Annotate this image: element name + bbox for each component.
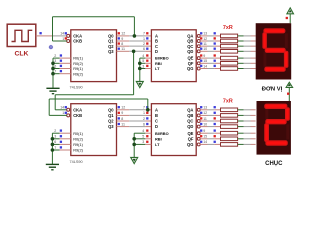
svg-text:13: 13 xyxy=(203,106,207,110)
svg-text:11: 11 xyxy=(121,122,125,126)
resistor R5 xyxy=(221,56,238,60)
state square decoder input xyxy=(146,123,148,125)
junction xyxy=(132,137,136,141)
clock output pin xyxy=(36,35,42,37)
CKB inversion bubble xyxy=(67,40,70,43)
wire Q0 to CKB feedback xyxy=(49,99,148,115)
svg-text:CKB: CKB xyxy=(73,113,82,118)
state square resistor pin xyxy=(214,123,216,125)
wire resistor to display xyxy=(238,132,244,134)
resistor R1 xyxy=(221,34,238,38)
svg-text:11: 11 xyxy=(121,47,125,51)
BI/RBI/LT pin stub 5 xyxy=(145,138,151,140)
7-segment display tens xyxy=(257,101,291,155)
svg-text:QA: QA xyxy=(187,107,193,112)
svg-text:RBI: RBI xyxy=(155,136,162,141)
svg-text:8: 8 xyxy=(121,42,123,46)
state square Q2 xyxy=(118,42,120,44)
svg-text:1: 1 xyxy=(62,37,64,41)
state square decoder output xyxy=(200,106,202,108)
wire QE to resistor xyxy=(200,132,207,134)
state square xyxy=(146,60,148,62)
state square Q1 xyxy=(118,37,120,39)
output bubble QF xyxy=(197,137,200,140)
svg-text:1: 1 xyxy=(143,111,145,115)
state square resistor pin xyxy=(214,135,216,137)
resistor R2 xyxy=(221,114,238,118)
state square R pin xyxy=(60,129,62,131)
IC 74LS47 decoder U2 xyxy=(151,30,196,82)
IC 74LS90 counter U1 xyxy=(71,104,117,156)
wire resistor to display xyxy=(238,57,244,59)
state square CKB xyxy=(65,112,67,114)
output bubble QE xyxy=(197,132,200,135)
svg-text:Q0: Q0 xyxy=(108,107,114,112)
state square decoder output xyxy=(200,129,202,131)
svg-text:5: 5 xyxy=(142,59,144,63)
7-segment display units xyxy=(256,23,292,79)
wire Q0 to decoder input xyxy=(117,109,130,111)
svg-text:5: 5 xyxy=(142,135,144,139)
output bubble QB xyxy=(197,40,200,43)
svg-text:15: 15 xyxy=(203,135,207,139)
state square decoder output xyxy=(200,112,202,114)
BI/RBI/LT pin stub 5 xyxy=(145,62,151,64)
state square resistor pin xyxy=(214,141,216,143)
svg-text:7xR: 7xR xyxy=(223,25,233,31)
output bubble QC xyxy=(197,120,200,123)
resistor R3 xyxy=(221,44,238,48)
wire resistor to display xyxy=(238,114,244,116)
junction xyxy=(51,143,55,147)
state square CKA xyxy=(65,32,67,34)
svg-text:9: 9 xyxy=(121,37,123,41)
state square decoder input xyxy=(146,37,148,39)
state square resistor pin xyxy=(214,60,216,62)
state square R pin xyxy=(60,60,62,62)
svg-text:7xR: 7xR xyxy=(223,99,233,105)
svg-text:11: 11 xyxy=(203,42,207,46)
svg-text:9: 9 xyxy=(121,111,123,115)
wire Q2 to decoder input xyxy=(117,120,130,122)
state square resistor pin xyxy=(214,42,216,44)
state square CKA xyxy=(65,106,67,108)
state square resistor pin xyxy=(214,32,216,34)
state square xyxy=(146,141,148,143)
state square R pin xyxy=(60,70,62,72)
BI/RBI/LT pin stub 4 xyxy=(145,57,151,59)
state square decoder output xyxy=(200,48,202,50)
R pin stub 2 xyxy=(60,57,71,59)
svg-text:2: 2 xyxy=(54,129,56,133)
BI/RBI/LT pin stub 3 xyxy=(145,143,151,145)
state square Q3 xyxy=(118,48,120,50)
ground xyxy=(46,88,59,93)
svg-text:15: 15 xyxy=(203,59,207,63)
state square xyxy=(146,129,148,131)
resistor R4 xyxy=(221,50,238,54)
state square decoder output xyxy=(200,65,202,67)
power terminal top display xyxy=(287,8,294,23)
output bubble QD xyxy=(197,125,200,128)
state square decoder input xyxy=(146,117,148,119)
svg-text:CLK: CLK xyxy=(15,51,29,58)
junction Q3 branch xyxy=(132,50,136,54)
svg-text:Q1: Q1 xyxy=(108,113,114,118)
wire QE to resistor xyxy=(200,57,207,59)
wire resistor to display xyxy=(238,120,244,122)
junction xyxy=(138,67,142,71)
state square decoder input xyxy=(146,42,148,44)
svg-text:12: 12 xyxy=(121,32,125,36)
wire Q3 to bottom CKA cascade xyxy=(55,51,133,110)
junction xyxy=(132,143,136,147)
state square decoder output xyxy=(200,42,202,44)
svg-text:14: 14 xyxy=(60,32,64,36)
wire QA to resistor xyxy=(200,35,207,37)
svg-text:10: 10 xyxy=(203,122,207,126)
CKA inversion bubble xyxy=(67,108,70,111)
output bubble QG xyxy=(197,67,200,70)
state square CKB xyxy=(65,37,67,39)
wire QF to resistor xyxy=(200,62,207,64)
svg-text:12: 12 xyxy=(203,111,207,115)
svg-text:C: C xyxy=(155,119,158,124)
state square decoder output xyxy=(200,32,202,34)
state square R pin xyxy=(60,135,62,137)
output bubble QB xyxy=(197,114,200,117)
svg-text:QE: QE xyxy=(187,131,193,136)
output bubble QG xyxy=(197,143,200,146)
ground xyxy=(46,164,59,169)
state square xyxy=(146,135,148,137)
R pin stub 6 xyxy=(60,68,71,70)
svg-text:7: 7 xyxy=(54,146,56,150)
svg-text:74LS90: 74LS90 xyxy=(70,86,83,90)
state square R pin xyxy=(60,65,62,67)
svg-text:QC: QC xyxy=(187,119,193,124)
svg-text:7: 7 xyxy=(143,106,145,110)
wire QC to resistor xyxy=(200,120,207,122)
svg-text:QD: QD xyxy=(187,49,193,54)
wire QD to resistor xyxy=(200,50,207,52)
state square decoder input xyxy=(146,106,148,108)
output bubble QD xyxy=(197,50,200,53)
resistor R4 xyxy=(221,125,238,129)
svg-text:R0(2): R0(2) xyxy=(73,136,83,141)
resistor R7 xyxy=(221,67,238,71)
state square resistor pin xyxy=(214,129,216,131)
svg-text:2: 2 xyxy=(143,117,145,121)
state square xyxy=(146,65,148,67)
output bubble QF xyxy=(197,62,200,65)
svg-text:LT: LT xyxy=(155,66,160,71)
wire QB to resistor xyxy=(200,40,207,42)
CKA inversion bubble xyxy=(67,34,70,37)
wire resistor to display xyxy=(238,40,244,42)
wire resistor to display xyxy=(238,50,244,52)
wire resistor to display xyxy=(238,68,244,70)
junction xyxy=(51,148,55,152)
state square decoder output xyxy=(200,117,202,119)
wire Q0 to CKB feedback xyxy=(53,17,135,41)
svg-text:CHỤC: CHỤC xyxy=(265,161,283,167)
wire resistor to display xyxy=(238,143,244,145)
state square decoder output xyxy=(200,54,202,56)
state square R pin xyxy=(60,141,62,143)
junction xyxy=(138,62,142,66)
wire resistor to display xyxy=(238,35,244,37)
BI/RBI/LT pin stub 3 xyxy=(145,68,151,70)
svg-text:1: 1 xyxy=(143,37,145,41)
svg-text:BI/RBO: BI/RBO xyxy=(155,131,169,136)
svg-text:6: 6 xyxy=(143,47,145,51)
clock generator CLK xyxy=(7,24,36,46)
R pin stub 3 xyxy=(60,138,71,140)
R pin stub 7 xyxy=(60,149,71,151)
wire QG to resistor xyxy=(200,143,207,145)
origin marker xyxy=(49,45,53,49)
state square decoder input xyxy=(146,112,148,114)
svg-text:3: 3 xyxy=(54,135,56,139)
state square resistor pin xyxy=(214,106,216,108)
output bubble QA xyxy=(197,34,200,37)
state square resistor pin xyxy=(214,65,216,67)
svg-text:R9(1): R9(1) xyxy=(73,142,83,147)
output bubble QA xyxy=(197,108,200,111)
state square decoder output xyxy=(200,37,202,39)
junction xyxy=(51,72,55,76)
svg-text:Q3: Q3 xyxy=(108,124,114,129)
svg-text:Q2: Q2 xyxy=(108,119,114,124)
wire R pins bus xyxy=(52,58,54,88)
R pin stub 3 xyxy=(60,62,71,64)
wire Q1 to decoder input xyxy=(117,114,130,116)
svg-text:6: 6 xyxy=(54,140,56,144)
svg-text:A: A xyxy=(155,107,158,112)
wire QB to resistor xyxy=(200,114,207,116)
wire LT net vertical xyxy=(133,133,135,157)
wire QA to resistor xyxy=(200,109,207,111)
svg-text:Q3: Q3 xyxy=(108,49,114,54)
state square resistor pin xyxy=(214,37,216,39)
svg-text:QD: QD xyxy=(187,124,193,129)
svg-text:9: 9 xyxy=(203,54,205,58)
svg-text:4: 4 xyxy=(142,129,144,133)
junction Q0 branch xyxy=(146,108,150,112)
svg-text:10: 10 xyxy=(203,47,207,51)
svg-text:14: 14 xyxy=(60,106,64,110)
svg-text:2: 2 xyxy=(143,42,145,46)
svg-text:11: 11 xyxy=(203,117,207,121)
svg-text:7: 7 xyxy=(143,32,145,36)
state square resistor pin xyxy=(214,117,216,119)
svg-text:9: 9 xyxy=(203,129,205,133)
svg-text:D: D xyxy=(155,124,158,129)
state square Q0 xyxy=(118,32,120,34)
svg-text:QB: QB xyxy=(187,113,193,118)
state square decoder input xyxy=(146,32,148,34)
wire Q3 to decoder input xyxy=(117,50,130,52)
state square resistor pin xyxy=(214,112,216,114)
state square resistor pin xyxy=(214,54,216,56)
junction Q0 branch xyxy=(133,34,137,38)
state square Q0 xyxy=(118,106,120,108)
power terminal bottom display xyxy=(286,82,293,101)
svg-text:R0(1): R0(1) xyxy=(73,131,83,136)
state square decoder output xyxy=(200,135,202,137)
wire QF to resistor xyxy=(200,138,207,140)
wire QD to resistor xyxy=(200,126,207,128)
resistor R2 xyxy=(221,39,238,43)
svg-text:74LS90: 74LS90 xyxy=(70,160,83,164)
junction xyxy=(51,62,55,66)
IC 74LS90 counter U1 xyxy=(71,30,117,82)
resistor R6 xyxy=(221,62,238,66)
R pin stub 2 xyxy=(60,132,71,134)
wire Q1 to decoder input xyxy=(117,40,130,42)
state square CLK output xyxy=(39,32,41,34)
state square decoder input xyxy=(146,48,148,50)
state square display anode xyxy=(286,17,288,19)
svg-text:14: 14 xyxy=(203,64,207,68)
svg-text:QG: QG xyxy=(187,66,193,71)
wire resistor to display xyxy=(238,126,244,128)
state square Q3 xyxy=(118,123,120,125)
power terminal arrow down xyxy=(136,81,143,87)
BI/RBI/LT pin stub 4 xyxy=(145,132,151,134)
wire R pins bus xyxy=(51,133,53,164)
wire resistor to display xyxy=(238,62,244,64)
wire Q3 to decoder input xyxy=(117,126,130,128)
svg-text:4: 4 xyxy=(142,54,144,58)
state square resistor pin xyxy=(214,48,216,50)
state square display anode xyxy=(287,93,289,95)
wire LT net vertical xyxy=(139,58,141,81)
svg-text:13: 13 xyxy=(203,32,207,36)
svg-text:QG: QG xyxy=(187,142,193,147)
state square decoder output xyxy=(200,123,202,125)
resistor R3 xyxy=(221,119,238,123)
wire resistor to display xyxy=(238,109,244,111)
junction xyxy=(51,67,55,71)
wire CLK to CKA xyxy=(42,35,53,37)
R pin stub 6 xyxy=(60,143,71,145)
wire QC to resistor xyxy=(200,45,207,47)
output bubble QC xyxy=(197,45,200,48)
svg-text:ĐƠN VỊ: ĐƠN VỊ xyxy=(262,86,283,92)
state square Q1 xyxy=(118,112,120,114)
svg-text:12: 12 xyxy=(203,37,207,41)
resistor R5 xyxy=(221,131,238,135)
resistor R1 xyxy=(221,108,238,112)
svg-text:3: 3 xyxy=(142,64,144,68)
state square R pin xyxy=(60,54,62,56)
wire resistor to display xyxy=(238,45,244,47)
power terminal arrow down xyxy=(131,157,138,163)
svg-text:B: B xyxy=(155,113,158,118)
state square Q2 xyxy=(118,117,120,119)
svg-text:R9(2): R9(2) xyxy=(73,148,83,153)
state square R pin xyxy=(60,146,62,148)
svg-text:14: 14 xyxy=(203,140,207,144)
resistor R6 xyxy=(221,137,238,141)
svg-text:CKB: CKB xyxy=(73,39,82,44)
output bubble QE xyxy=(197,57,200,60)
state square xyxy=(146,54,148,56)
wire resistor to display xyxy=(238,138,244,140)
wire Q0 to decoder input xyxy=(117,35,130,37)
svg-text:LT: LT xyxy=(155,142,160,147)
svg-text:1: 1 xyxy=(62,111,64,115)
state square decoder output xyxy=(200,141,202,143)
svg-text:12: 12 xyxy=(121,106,125,110)
resistor R7 xyxy=(221,143,238,147)
state square decoder output xyxy=(200,60,202,62)
junction xyxy=(51,137,55,141)
CKB inversion bubble xyxy=(67,114,70,117)
svg-text:8: 8 xyxy=(121,117,123,121)
svg-text:CKA: CKA xyxy=(73,107,82,112)
wire Q2 to decoder input xyxy=(117,45,130,47)
R pin stub 7 xyxy=(60,73,71,75)
svg-text:6: 6 xyxy=(143,122,145,126)
svg-text:QF: QF xyxy=(188,136,194,141)
svg-text:2: 2 xyxy=(54,54,56,58)
svg-text:D: D xyxy=(155,49,158,54)
IC 74LS47 decoder U2 xyxy=(151,104,196,156)
svg-text:3: 3 xyxy=(142,140,144,144)
wire QG to resistor xyxy=(200,68,207,70)
svg-text:R9(2): R9(2) xyxy=(73,71,83,76)
